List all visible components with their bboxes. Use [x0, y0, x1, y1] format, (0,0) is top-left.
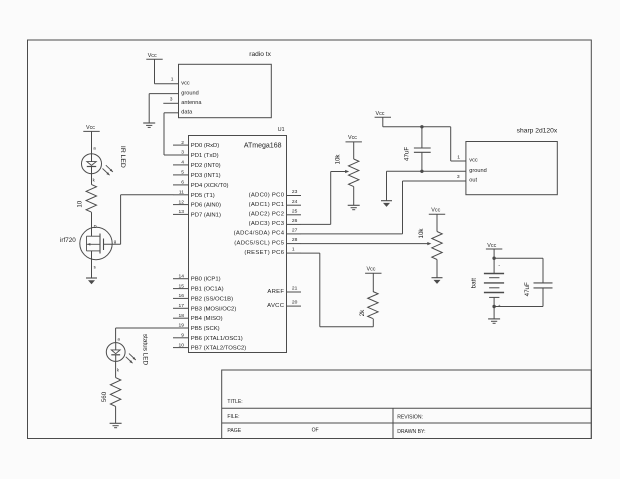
svg-text:irf720: irf720: [60, 237, 76, 244]
svg-text:13: 13: [179, 209, 185, 215]
svg-text:PD2 (INT0): PD2 (INT0): [191, 163, 221, 169]
svg-text:2k: 2k: [359, 309, 366, 316]
svg-text:1: 1: [457, 154, 460, 160]
svg-text:47uF: 47uF: [524, 282, 531, 296]
wire U1 PB5 to status LED: [116, 328, 174, 343]
wire vcc to pot 1: [353, 142, 355, 159]
svg-text:Vcc: Vcc: [348, 135, 357, 141]
svg-text:sharp 2d120x: sharp 2d120x: [517, 128, 558, 135]
svg-text:9: 9: [181, 333, 184, 339]
svg-text:PD0 (RxD): PD0 (RxD): [191, 143, 220, 149]
svg-text:D: D: [94, 224, 97, 229]
svg-text:19: 19: [179, 323, 185, 329]
svg-text:ground: ground: [181, 90, 198, 96]
battery batt: [470, 262, 504, 308]
svg-text:26: 26: [292, 218, 298, 224]
svg-text:PD4 (XCK/T0): PD4 (XCK/T0): [191, 183, 229, 189]
svg-text:TITLE:: TITLE:: [227, 399, 242, 405]
svg-text:12: 12: [179, 199, 185, 205]
vcc symbol (battery): [486, 243, 502, 249]
svg-text:status LED: status LED: [142, 334, 149, 366]
U1 pin 14 PB0: [173, 273, 221, 282]
svg-text:PB4 (MISO): PB4 (MISO): [191, 316, 223, 322]
svg-text:24: 24: [292, 199, 298, 205]
wire vcc to R3: [372, 273, 374, 291]
resistor R3 2k: [359, 292, 378, 319]
svg-text:PD7 (AIN1): PD7 (AIN1): [191, 212, 221, 218]
svg-text:1: 1: [171, 77, 174, 83]
svg-text:2: 2: [181, 140, 184, 146]
U1 pin 16 PB2: [173, 293, 233, 302]
wire IR LED cathode to R1: [92, 174, 96, 185]
junction (battery top): [492, 257, 495, 260]
svg-text:s: s: [94, 264, 96, 269]
svg-text:Vcc: Vcc: [148, 53, 157, 59]
svg-text:Vcc: Vcc: [367, 267, 376, 273]
LED D1 IR LED: [82, 146, 127, 175]
wire pot 1 to ground: [353, 187, 355, 206]
wire pot 2 to ground: [436, 260, 438, 278]
svg-text:PAGE: PAGE: [227, 428, 241, 434]
radio tx module: [170, 51, 272, 118]
U1 pin 20 AVCC: [267, 300, 301, 309]
svg-text:1: 1: [292, 247, 295, 253]
svg-text:3: 3: [457, 174, 460, 180]
ground (sharp): [381, 201, 392, 207]
svg-text:PB7 (XTAL2/TOSC2): PB7 (XTAL2/TOSC2): [191, 346, 246, 352]
svg-text:PB2 (SS/OC1B): PB2 (SS/OC1B): [191, 296, 233, 302]
svg-text:28: 28: [292, 237, 298, 243]
U1 pin 26 PC3: [249, 218, 301, 227]
svg-text:25: 25: [292, 208, 298, 214]
vcc symbol (sharp): [375, 111, 391, 117]
svg-text:11: 11: [179, 190, 184, 196]
ground (R2): [110, 423, 122, 427]
svg-text:vcc: vcc: [181, 81, 190, 87]
junction (cap C1 bottom): [420, 170, 423, 173]
svg-text:Vcc: Vcc: [431, 207, 440, 213]
svg-text:a: a: [93, 146, 96, 151]
potentiometer VR2 10k: [418, 228, 442, 260]
svg-text:PB6 (XTAL1/OSC1): PB6 (XTAL1/OSC1): [191, 336, 243, 342]
svg-text:(ADC5/SCL) PC5: (ADC5/SCL) PC5: [234, 240, 284, 246]
svg-text:560: 560: [101, 391, 108, 402]
svg-text:PD6 (AIN0): PD6 (AIN0): [191, 203, 221, 209]
svg-text:23: 23: [292, 189, 298, 195]
svg-text:Vcc: Vcc: [86, 125, 95, 131]
svg-text:10k: 10k: [418, 228, 425, 239]
U1 pin 23 PC0: [249, 189, 301, 198]
svg-text:k: k: [93, 177, 96, 182]
svg-text:3: 3: [181, 150, 184, 156]
U1 pin 17 PB3: [173, 303, 236, 312]
svg-text:radio tx: radio tx: [249, 51, 271, 58]
capacitor C2 47uF: [524, 282, 552, 296]
svg-text:5: 5: [181, 170, 184, 176]
U1 pin 3 PD1: [173, 150, 219, 159]
LED D2 status LED: [106, 334, 148, 366]
junction (cap C1 top): [420, 125, 423, 128]
U1 pin 9 PB6: [173, 333, 243, 342]
wire U1 RESET to R3: [301, 253, 374, 327]
svg-text:PB1 (OC1A): PB1 (OC1A): [191, 287, 224, 293]
svg-text:ATmega168: ATmega168: [244, 142, 282, 149]
ground (pot 1): [348, 205, 360, 209]
svg-text:10: 10: [76, 200, 83, 207]
transistor Q1 irf720: [60, 227, 117, 269]
svg-text:g: g: [114, 239, 117, 244]
svg-text:IR LED: IR LED: [119, 146, 126, 168]
svg-text:(RESET) PC6: (RESET) PC6: [244, 250, 284, 256]
svg-text:14: 14: [179, 273, 185, 279]
svg-text:PD5 (T1): PD5 (T1): [191, 193, 215, 199]
svg-text:PD3 (INT1): PD3 (INT1): [191, 173, 221, 179]
svg-text:21: 21: [292, 286, 298, 292]
vcc symbol (IR LED): [83, 125, 99, 131]
svg-text:10: 10: [179, 342, 185, 348]
svg-text:47uF: 47uF: [403, 147, 410, 161]
potentiometer VR1 10k: [331, 154, 359, 187]
wire sharp ground rail: [387, 171, 466, 200]
wire radio antenna pin 3: [163, 102, 178, 104]
wire vcc to battery: [493, 249, 495, 274]
svg-text:(ADC3) PC3: (ADC3) PC3: [249, 221, 285, 227]
svg-text:PB0 (ICP1): PB0 (ICP1): [191, 277, 221, 283]
U1 pin 11 PD5: [173, 190, 215, 199]
svg-text:OF: OF: [312, 427, 319, 433]
border frame: [28, 40, 592, 439]
U1 pin 25 PC2: [249, 208, 301, 217]
U1 pin 28 PC5: [234, 237, 301, 246]
wire vcc to IR LED anode: [92, 131, 97, 153]
resistor R1 10: [76, 184, 96, 212]
svg-text:PD1 (TxD): PD1 (TxD): [191, 153, 219, 159]
svg-text:(ADC2) PC2: (ADC2) PC2: [249, 212, 285, 218]
svg-text:-: -: [498, 262, 500, 268]
svg-text:PB3 (MOSI/OC2): PB3 (MOSI/OC2): [191, 306, 237, 312]
svg-text:k: k: [117, 367, 120, 372]
wire Q1 gate to U1 PD5: [104, 195, 174, 245]
wire battery to ground: [493, 307, 495, 319]
svg-text:ground: ground: [469, 168, 486, 174]
junction (battery bottom): [492, 305, 495, 308]
wire radio ground: [149, 94, 178, 123]
svg-text:15: 15: [179, 283, 185, 289]
svg-text:(ADC4/SDA) PC4: (ADC4/SDA) PC4: [234, 231, 285, 237]
resistor R2 560: [101, 378, 121, 407]
svg-text:(ADC1) PC1: (ADC1) PC1: [249, 202, 285, 208]
U1 pin 27 PC4: [234, 228, 301, 237]
svg-text:a: a: [118, 336, 121, 341]
U1 pin 4 PD2: [173, 160, 221, 169]
U1 pin 5 PD3: [173, 170, 221, 179]
svg-text:batt: batt: [470, 278, 477, 289]
vcc symbol (pot 1): [346, 135, 362, 142]
ground (Q1 source): [86, 278, 97, 284]
svg-text:REVISION:: REVISION:: [397, 415, 423, 421]
wire Q1 source to ground: [91, 251, 93, 278]
vcc symbol (pot 2): [429, 207, 445, 214]
svg-text:4: 4: [181, 160, 184, 166]
vcc symbol (R3 2k): [365, 267, 381, 274]
svg-text:16: 16: [179, 293, 185, 299]
sensor sharp 2d120x: [457, 128, 558, 195]
svg-text:out: out: [469, 178, 477, 184]
svg-text:vcc: vcc: [469, 158, 478, 164]
wire R1 to Q1 drain: [92, 212, 97, 236]
wire vcc to pot 2: [436, 214, 438, 231]
U1 pin 18 PB4: [173, 313, 223, 322]
svg-text:Vcc: Vcc: [487, 243, 496, 249]
U1 pin 24 PC1: [249, 199, 301, 208]
IC U1 ATmega168: [189, 127, 287, 353]
wire battery to cap C2: [494, 258, 543, 306]
U1 pin 15 PB1: [173, 283, 224, 292]
svg-text:3: 3: [170, 97, 173, 103]
U1 pin 6 PD4: [173, 180, 228, 189]
svg-text:PB5 (SCK): PB5 (SCK): [191, 326, 220, 332]
svg-text:17: 17: [179, 303, 185, 309]
svg-text:DRAWN BY:: DRAWN BY:: [397, 429, 425, 435]
svg-text:20: 20: [292, 300, 298, 306]
svg-text:18: 18: [179, 313, 185, 319]
U1 pin 13 PD7: [173, 209, 221, 218]
wire R2 to ground: [115, 406, 117, 423]
wire pot 1 wiper to U1 PC3: [301, 172, 331, 225]
U1 pin 19 PB5: [173, 323, 220, 332]
vcc symbol (radio): [146, 53, 162, 59]
svg-text:U1: U1: [278, 127, 285, 133]
wire sharp out to U1 PC4: [301, 181, 466, 234]
wire status LED cathode to R2: [116, 361, 120, 377]
svg-text:AREF: AREF: [267, 289, 284, 295]
wire U1 PC5 to pot 2 wiper: [301, 242, 432, 245]
U1 pin 12 PD6: [173, 199, 221, 208]
U1 pin 2 PD0: [173, 140, 219, 149]
title block: [222, 370, 592, 439]
wire radio data to U1 PD1 (TxD): [164, 113, 179, 155]
ground (pot 2): [432, 278, 443, 284]
svg-text:data: data: [181, 110, 193, 116]
svg-text:AVCC: AVCC: [267, 303, 285, 309]
svg-text:6: 6: [181, 180, 184, 186]
U1 pin 10 PB7: [173, 342, 246, 351]
svg-text:antenna: antenna: [181, 100, 202, 106]
U1 pin 1 PC6: [244, 247, 301, 256]
svg-text:27: 27: [292, 228, 298, 234]
wire radio vcc pin 1: [155, 59, 179, 84]
svg-text:10k: 10k: [334, 154, 341, 165]
svg-text:(ADC0) PC0: (ADC0) PC0: [249, 192, 285, 198]
U1 pin 21 AREF: [267, 286, 301, 295]
wire vcc rail to sharp vcc: [383, 117, 466, 161]
svg-text:FILE:: FILE:: [227, 414, 239, 420]
ground (radio): [143, 123, 155, 127]
svg-text:Vcc: Vcc: [376, 111, 385, 117]
capacitor C1 47uF: [403, 127, 430, 172]
ground (battery): [488, 319, 500, 323]
